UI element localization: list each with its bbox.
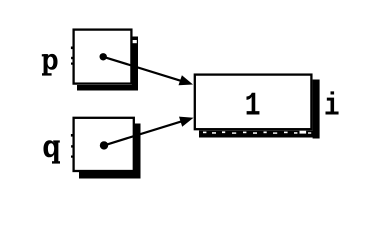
shadow bottom of box P <box>77 85 138 91</box>
shadow notch artifact box P <box>133 40 137 43</box>
label p <box>43 54 57 76</box>
box P (pointer p cell) <box>71 30 138 91</box>
shadow bottom of box I <box>199 131 320 138</box>
box I (variable i cell) <box>195 75 320 139</box>
shadow right of box Q <box>134 124 140 179</box>
arrow p head <box>179 75 194 85</box>
shadow speckles on box I bottom <box>203 131 311 134</box>
dot in box P <box>100 53 107 60</box>
label i <box>325 91 338 114</box>
wire arrow from q to i <box>104 117 194 146</box>
shadow bottom of box Q <box>79 172 141 179</box>
shadow right of box I <box>313 80 320 139</box>
serif bars on label p <box>42 54 52 75</box>
box I outline <box>195 75 312 130</box>
value 1 in box I <box>246 93 259 115</box>
scan ticks on box P left edge <box>71 47 73 65</box>
wire arrow from p to i <box>103 57 193 86</box>
label q <box>43 140 58 163</box>
serif bars on label q <box>52 140 60 163</box>
arrow q head <box>179 117 194 127</box>
scan ticks on box Q left edge <box>71 134 73 158</box>
box Q outline <box>74 118 134 171</box>
shadow right of box P <box>132 37 138 91</box>
box P outline <box>74 30 132 84</box>
dot in box Q <box>100 141 108 149</box>
arrow q shaft <box>104 120 185 145</box>
box Q (pointer q cell) <box>71 118 141 179</box>
arrow p shaft <box>103 57 184 82</box>
